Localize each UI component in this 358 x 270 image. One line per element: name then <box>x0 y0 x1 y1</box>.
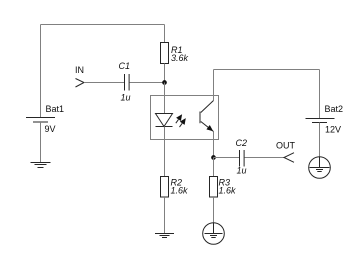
label R3 value 1.6k <box>219 186 237 196</box>
wire emitter to node B <box>213 132 215 158</box>
earth ground under R3 <box>203 223 225 245</box>
label OUT <box>276 141 296 151</box>
LED inside U1 <box>156 114 173 127</box>
wire right vertical to Bat2 <box>319 70 321 119</box>
label R1 value 3.6k <box>171 53 189 63</box>
ground under R2 <box>155 234 174 238</box>
phototransistor inside U1 <box>200 101 214 132</box>
wire IN to C1 <box>84 82 124 84</box>
node B junction dot <box>211 155 216 160</box>
resistor R1 <box>161 43 169 64</box>
wire node B to R3 <box>213 158 215 177</box>
port OUT <box>284 153 294 163</box>
svg-text:9V: 9V <box>45 124 56 134</box>
svg-text:12V: 12V <box>325 125 341 135</box>
wire node B to C2 <box>214 157 240 159</box>
label C2 <box>236 138 248 148</box>
wire node A to LED anode <box>164 83 166 114</box>
battery Bat2 <box>306 119 335 123</box>
svg-text:Bat1: Bat1 <box>46 104 65 114</box>
label Bat1 <box>46 104 65 114</box>
wire R1 to node A <box>164 64 166 83</box>
wire top to R1 <box>164 25 166 43</box>
label C1 <box>119 61 131 71</box>
wire Bat2 minus to earth <box>319 123 321 157</box>
resistor R3 <box>210 177 218 198</box>
svg-text:IN: IN <box>75 65 84 75</box>
capacitor C1 <box>125 74 130 91</box>
LED light arrow 2 <box>180 118 186 127</box>
svg-text:1.6k: 1.6k <box>219 186 237 196</box>
LED light arrow 1 <box>176 114 182 123</box>
svg-text:1u: 1u <box>121 93 131 103</box>
label Bat2 value 12V <box>325 125 341 135</box>
wire top horizontal from Bat1 to R1 <box>41 24 165 26</box>
svg-text:3.6k: 3.6k <box>171 53 189 63</box>
battery Bat1 <box>26 118 55 123</box>
svg-text:C1: C1 <box>119 61 131 71</box>
port IN <box>76 79 85 88</box>
wire left vertical Bat1 plus <box>40 25 42 118</box>
wire top right horizontal <box>214 69 320 71</box>
wire collector to top right <box>213 70 215 101</box>
capacitor C2 <box>240 150 245 167</box>
label R1 <box>171 45 183 55</box>
label R2 <box>171 178 183 188</box>
svg-text:1.6k: 1.6k <box>171 186 189 196</box>
svg-text:C2: C2 <box>236 138 248 148</box>
wire C1 to node A <box>130 82 165 84</box>
label Bat2 <box>325 104 344 114</box>
resistor R2 <box>161 177 169 198</box>
svg-text:1u: 1u <box>237 166 247 176</box>
wire LED cathode to R2 <box>164 127 166 177</box>
label C1 value 1u <box>121 93 131 103</box>
op-to-coupler U1 box <box>151 96 219 140</box>
wire R2 to ground <box>164 197 166 234</box>
label R2 value 1.6k <box>171 186 189 196</box>
label C2 value 1u <box>237 166 247 176</box>
wire R3 to earth <box>213 197 215 223</box>
wire Bat1 minus to ground <box>40 122 42 163</box>
wire C2 to OUT <box>245 157 285 159</box>
label Bat1 value 9V <box>45 124 56 134</box>
svg-text:OUT: OUT <box>276 141 296 151</box>
ground under Bat1 <box>31 163 51 168</box>
label IN <box>75 65 84 75</box>
earth ground under Bat2 <box>309 157 331 179</box>
svg-text:Bat2: Bat2 <box>325 104 344 114</box>
node A junction dot <box>162 80 167 85</box>
label R3 <box>219 178 231 188</box>
